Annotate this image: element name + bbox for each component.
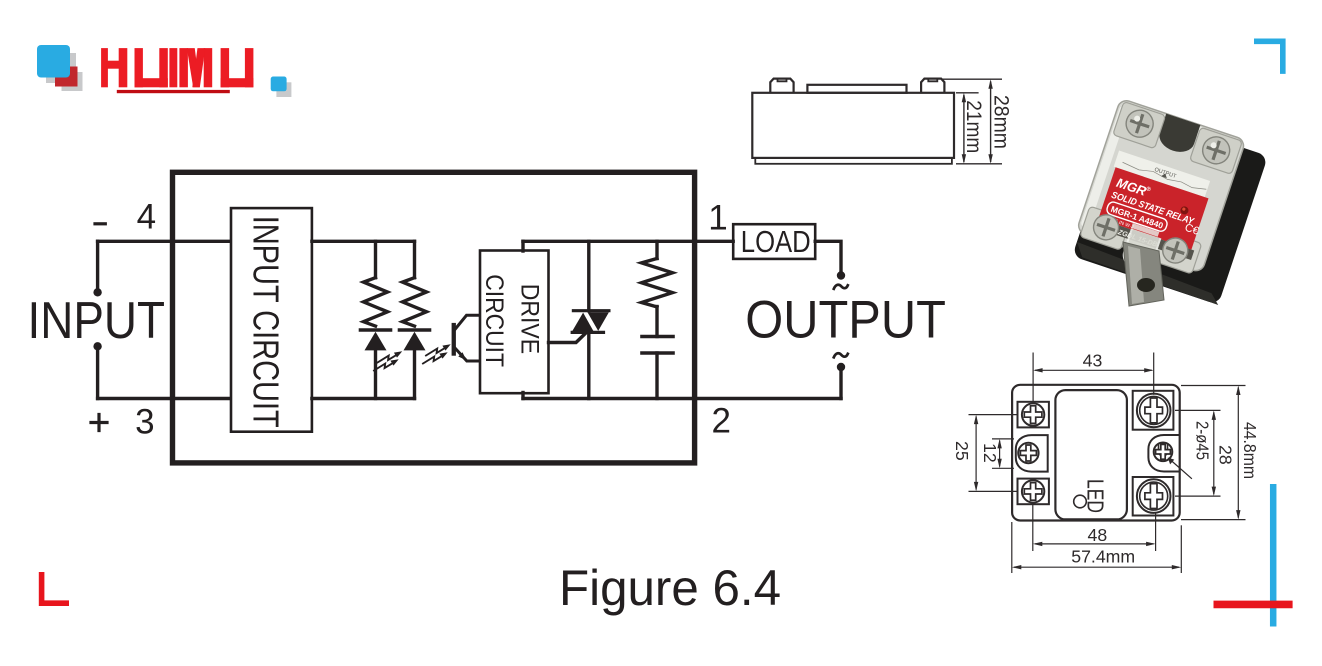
letter I bbox=[170, 49, 177, 87]
relay side view dimension drawing bbox=[752, 79, 1012, 164]
logo gray shadow square 2 bbox=[62, 72, 83, 91]
svg-text:12: 12 bbox=[980, 443, 1000, 463]
SSR internal circuit schematic bbox=[28, 172, 946, 463]
photo clear cover bbox=[1076, 98, 1246, 273]
relay body outline bbox=[1012, 385, 1180, 521]
triac T1 left triangle bbox=[572, 313, 593, 332]
dimension line 28 bbox=[1213, 412, 1215, 494]
svg-text:LOAD: LOAD bbox=[741, 224, 811, 259]
photo red label bbox=[1098, 167, 1208, 249]
dimension line 21mm bbox=[963, 95, 965, 162]
wire snubber bottom bbox=[655, 353, 658, 399]
svg-text:LED: LED bbox=[1083, 479, 1109, 513]
wire LED branch 1 vertical bottom bbox=[374, 350, 377, 398]
dimension line 57.4mm bbox=[1014, 566, 1179, 568]
svg-text:2-ø45: 2-ø45 bbox=[1193, 421, 1213, 460]
dimension line 25 bbox=[975, 417, 977, 490]
svg-text:1: 1 bbox=[708, 199, 727, 238]
triac T1 vertical bottom bbox=[587, 332, 590, 398]
bottom-right screw housing bbox=[1133, 477, 1174, 516]
svg-text:43: 43 bbox=[1083, 351, 1103, 371]
svg-text:44.8mm: 44.8mm bbox=[1240, 422, 1260, 479]
svg-text:48: 48 bbox=[1088, 525, 1108, 545]
phototransistor Q1 light arrows bbox=[423, 344, 451, 363]
node plus sign bbox=[91, 415, 107, 431]
wire drive block top stub bbox=[521, 241, 524, 251]
logo small blue square bbox=[271, 77, 287, 92]
resistor R3 snubber bbox=[642, 259, 673, 307]
dim 25 extension lines bbox=[969, 414, 1018, 416]
letter M bbox=[180, 49, 188, 87]
right screw slot bbox=[928, 79, 937, 82]
svg-text:OUTPUT: OUTPUT bbox=[745, 291, 946, 350]
relay top cover ridge bbox=[807, 85, 906, 93]
dimension line 44.8mm bbox=[1237, 388, 1239, 518]
bottom-right red horizontal line bbox=[1214, 601, 1293, 609]
bottom-left screw bbox=[1022, 480, 1044, 502]
dim 28 extension lines bbox=[1175, 409, 1221, 411]
mid-right screw housing bbox=[1148, 435, 1179, 472]
output terminal lower dot bbox=[837, 363, 845, 371]
letter U bbox=[221, 49, 229, 87]
photo screw top-left bbox=[1123, 107, 1157, 141]
input terminal lower dot bbox=[93, 342, 101, 350]
svg-text:INPUT CIRCUIT: INPUT CIRCUIT bbox=[246, 216, 287, 428]
svg-text:DRIVE: DRIVE bbox=[516, 284, 544, 354]
relay body side outline bbox=[752, 93, 954, 158]
svg-text:CIRCUIT: CIRCUIT bbox=[480, 274, 508, 367]
svg-text:57.4mm: 57.4mm bbox=[1071, 546, 1135, 566]
capacitor C1 bottom plate bbox=[642, 351, 673, 355]
load box bbox=[733, 224, 815, 259]
top-right screw bbox=[1137, 394, 1171, 428]
LED D1 triangle bbox=[365, 332, 387, 351]
wire input terminal vertical upper bbox=[96, 241, 99, 289]
relay top view dimension drawing bbox=[952, 351, 1260, 574]
photo terminal block top-left bbox=[1113, 102, 1166, 149]
svg-text:25: 25 bbox=[952, 441, 972, 461]
left terminal screw bbox=[770, 79, 793, 93]
photo label model box bbox=[1106, 201, 1169, 233]
dim 48 extension lines bbox=[1032, 505, 1034, 551]
photo terminal block bottom-right bbox=[1151, 230, 1202, 274]
dimension line 48 bbox=[1035, 543, 1154, 545]
photo screw bottom-right bbox=[1159, 235, 1191, 267]
2-o45 pointer arrow bbox=[1170, 460, 1192, 479]
photo mounting flange bbox=[1123, 242, 1164, 306]
photo screw bottom-left bbox=[1090, 212, 1122, 244]
wire mid top rail bbox=[312, 240, 415, 243]
capacitor C1 top plate bbox=[642, 335, 673, 339]
LED D2 triangle bbox=[404, 332, 426, 351]
tick line base bottom level bbox=[956, 163, 1002, 165]
top-right screw housing bbox=[1133, 391, 1174, 430]
center cover panel bbox=[1055, 390, 1127, 519]
photo screw top-right bbox=[1199, 133, 1233, 167]
tick line screw top level bbox=[941, 78, 1002, 80]
left screw slot bbox=[778, 79, 787, 82]
photo terminal block bottom-left bbox=[1080, 206, 1131, 250]
wire LED branch 2 vertical bottom bbox=[413, 350, 416, 398]
output terminal upper dot bbox=[837, 271, 845, 279]
bottom-right blue vertical line bbox=[1270, 484, 1277, 627]
output terminal upper AC tilde bbox=[834, 285, 848, 289]
wire load to output terminal bbox=[815, 241, 841, 271]
triac T1 vertical top bbox=[587, 241, 590, 310]
wire mid bottom rail bbox=[312, 397, 415, 400]
bottom-left screw housing bbox=[1018, 479, 1049, 505]
wire input bottom rail bbox=[98, 397, 231, 400]
svg-text:INPUT: INPUT bbox=[28, 291, 166, 349]
top-left screw bbox=[1022, 403, 1044, 425]
logo red underline bbox=[117, 90, 230, 93]
bottom-left red corner bracket bbox=[42, 572, 69, 603]
HUIMU logo bbox=[37, 45, 291, 97]
LED D1 cathode bar bbox=[361, 328, 391, 332]
relay base plate bbox=[755, 158, 952, 164]
dimension line 28mm bbox=[990, 82, 992, 163]
wire input terminal vertical lower bbox=[96, 350, 99, 399]
triac T1 right triangle bbox=[588, 312, 609, 331]
SSR outline box bbox=[173, 172, 695, 463]
dim 57.4 extension lines bbox=[1011, 522, 1013, 573]
svg-text:Figure 6.4: Figure 6.4 bbox=[559, 560, 781, 616]
svg-text:21mm: 21mm bbox=[962, 100, 985, 153]
output terminal lower AC tilde bbox=[834, 353, 848, 357]
photo cover top notch bbox=[1156, 114, 1201, 157]
svg-text:28mm: 28mm bbox=[990, 95, 1013, 149]
svg-text:28: 28 bbox=[1216, 445, 1236, 465]
svg-text:3: 3 bbox=[135, 402, 154, 441]
input terminal upper dot bbox=[93, 288, 101, 296]
right terminal screw bbox=[921, 79, 944, 93]
photo white strip above label bbox=[1114, 151, 1210, 198]
photo dark band below label bbox=[1100, 220, 1194, 260]
dim 43 extension lines bbox=[1032, 353, 1034, 402]
mid-left screw bbox=[1018, 443, 1038, 463]
svg-text:4: 4 bbox=[137, 197, 156, 236]
triac T1 gate wire bbox=[549, 333, 587, 343]
resistor R1 bbox=[364, 278, 388, 326]
resistor R2 bbox=[403, 278, 427, 326]
wire output terminal lower vertical bbox=[839, 371, 842, 399]
photo relay black base bbox=[1072, 107, 1268, 305]
tick line body top level bbox=[956, 92, 979, 94]
phototransistor Q1 base bar bbox=[452, 323, 456, 356]
dimension line 43 bbox=[1035, 369, 1152, 371]
logo red square bbox=[55, 67, 78, 87]
triac T1 top bar bbox=[573, 309, 609, 312]
letter H bbox=[102, 49, 108, 87]
dimension line 12 bbox=[999, 441, 1001, 467]
mid-left screw housing bbox=[1016, 435, 1048, 472]
top-right blue corner bracket bbox=[1254, 41, 1283, 74]
letter U bbox=[135, 49, 142, 87]
top-left screw housing bbox=[1018, 402, 1049, 428]
bottom-right screw bbox=[1137, 479, 1171, 513]
drive circuit block U2 bbox=[480, 251, 549, 394]
input circuit block U1 bbox=[231, 208, 312, 432]
triac T1 bottom bar bbox=[572, 331, 603, 334]
logo wordmark HUIMU bbox=[102, 49, 253, 87]
node minus sign bbox=[95, 222, 105, 225]
logo small gray shadow square bbox=[276, 82, 291, 97]
wire output top rail bbox=[523, 240, 733, 243]
photo cover left highlight bbox=[1080, 105, 1129, 229]
photo clear arch over flange bbox=[1120, 229, 1160, 274]
photo base side highlight bbox=[1072, 242, 1223, 305]
photo terminal block top-right bbox=[1190, 127, 1243, 174]
wire snubber middle bbox=[655, 307, 658, 337]
LED D1 light arrows bbox=[374, 351, 402, 370]
phototransistor Q1 emitter arrow bbox=[458, 352, 466, 360]
svg-text:2: 2 bbox=[711, 401, 730, 440]
dim 44.8 extension lines bbox=[1181, 385, 1246, 387]
mid-right screw bbox=[1154, 443, 1173, 462]
wire drive block bottom stub bbox=[521, 393, 524, 399]
photo cover top edge highlight bbox=[1120, 101, 1242, 150]
product photo of MGR solid state relay bbox=[1068, 98, 1270, 305]
phototransistor Q1 emitter bbox=[455, 348, 481, 362]
LED indicator circle bbox=[1074, 495, 1087, 508]
wire input top rail bbox=[98, 240, 231, 243]
logo gray shadow square 1 bbox=[46, 53, 76, 83]
photo LED indicator bbox=[1179, 205, 1189, 215]
wire LED branch 2 vertical top bbox=[413, 241, 416, 277]
phototransistor Q1 collector bbox=[455, 315, 481, 330]
wire output bottom rail bbox=[523, 397, 841, 400]
snubber branch vertical top bbox=[655, 241, 658, 258]
logo blue square bbox=[37, 45, 70, 78]
dim 12 extension lines bbox=[992, 438, 1014, 440]
LED D2 cathode bar bbox=[400, 328, 430, 332]
wire LED branch 1 vertical top bbox=[374, 241, 377, 277]
